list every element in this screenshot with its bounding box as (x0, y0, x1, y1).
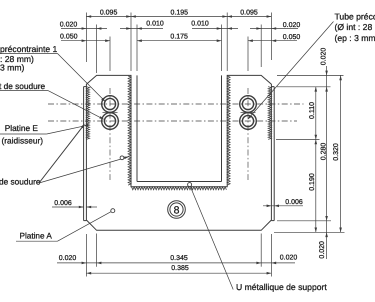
extension line lining inner right (top) (221, 25, 223, 72)
svg-text:Tube précontrainte 2: Tube précontrainte 2 (335, 12, 375, 22)
leader U metallique with node dot (190, 187, 233, 290)
svg-text:0.050: 0.050 (283, 34, 301, 41)
leader de soudure to inner wall weld (39, 157, 128, 183)
Platine E left (raidisseur) (83, 87, 85, 221)
svg-text:0.010: 0.010 (191, 21, 209, 28)
svg-text:précontrainte 1: précontrainte 1 (0, 44, 58, 54)
svg-text:8: 8 (174, 204, 180, 216)
centerline tube row 1 (horizontal) (48, 103, 304, 105)
svg-text:0.020: 0.020 (280, 255, 298, 262)
dimension 0.006 right plate (263, 205, 303, 207)
dimension 0.020 bottom-left (57, 262, 97, 264)
dimension 0.020 left (row2) (61, 28, 107, 30)
svg-text:0.345: 0.345 (170, 255, 188, 262)
dimension 0.195 (row1) (131, 16, 227, 18)
tube precontrainte 1 left (top) (102, 96, 119, 113)
extension line bottom chamfer right (260, 234, 262, 267)
weld serration right plate (268, 87, 271, 140)
dimension 0.095 left (row1) (86, 16, 131, 18)
inner lining plate bottom (Platine A) (137, 181, 222, 183)
dimension 0.020 bottom-right (261, 262, 295, 264)
svg-text:0.095: 0.095 (100, 10, 118, 17)
centerline left tubes (vertical) (109, 88, 111, 180)
svg-text:0.095: 0.095 (240, 10, 258, 17)
dimension 0.190 (right col1) (315, 140, 317, 233)
svg-text:0.195: 0.195 (171, 10, 189, 17)
tick at right tube tangency (241, 112, 256, 114)
svg-text:0.110: 0.110 (309, 102, 316, 119)
svg-text:U métallique de support: U métallique de support (236, 282, 327, 292)
extension line plate bottom (right) (277, 220, 331, 222)
tube precontrainte 2 left (bottom) (102, 113, 119, 130)
weld serration right opening wall (227, 76, 230, 185)
extension line arms top (right) (277, 74, 344, 76)
svg-text:0.050: 0.050 (60, 34, 78, 41)
svg-text:0.020: 0.020 (321, 48, 328, 66)
extension line body left edge (bottom) (85, 234, 87, 277)
svg-text:(Ø int : 28 mm): (Ø int : 28 mm) (335, 22, 375, 32)
extension line body right edge (top) (270, 13, 272, 61)
dimension 0.010 right (row2) (192, 28, 238, 30)
item balloon 8 (168, 201, 186, 219)
leader Platine E (0, 133, 47, 135)
extension line right tube axis (top) (247, 37, 249, 72)
svg-text:3 mm): 3 mm) (0, 63, 24, 73)
svg-text:0.320: 0.320 (333, 143, 340, 161)
svg-text:0.006: 0.006 (54, 200, 72, 207)
svg-text:0.006: 0.006 (285, 199, 303, 206)
dimension 0.175 (row3) (137, 40, 222, 42)
dimension 0.050 left (row3) (61, 40, 110, 42)
dimension 0.020 top (right col2) (326, 66, 328, 87)
extension line opening left wall (top) (130, 13, 132, 72)
svg-text:0.280: 0.280 (321, 143, 328, 161)
inner lining plate right (vertical) (221, 75, 223, 181)
extension line plate top (right) (277, 86, 331, 88)
leader t de soudure (0, 90, 48, 92)
svg-text:(ep : 3 mm): (ep : 3 mm) (335, 33, 375, 43)
dimension 0.010 left (row2) (120, 28, 163, 30)
dimension 0.280 (right col2) (326, 87, 328, 221)
centerline tube row 2 (horizontal) (48, 120, 297, 122)
leader Platine A with node dot (16, 240, 58, 242)
extension line body right edge (bottom) (270, 234, 272, 277)
dimension 0.006 left plate (52, 206, 84, 208)
svg-text:0.020: 0.020 (60, 21, 78, 28)
dimension 0.320 (right col3) (340, 75, 342, 232)
dimension 0.110 (right col1) (315, 87, 317, 140)
tube precontrainte 1 right (top) (240, 96, 257, 113)
tick at left tube tangency (103, 112, 118, 114)
svg-text:0.010: 0.010 (146, 21, 164, 28)
svg-text:0.175: 0.175 (170, 34, 188, 41)
extension line lining inner left (top) (136, 25, 138, 72)
tube precontrainte 2 right (bottom) (240, 113, 257, 130)
extension line top chamfer end right (260, 25, 262, 68)
svg-text:t de soudure: t de soudure (0, 81, 46, 91)
svg-text:Platine E: Platine E (5, 123, 39, 133)
extension line top chamfer end (96, 25, 98, 74)
extension line body bottom (right) (274, 231, 345, 233)
svg-text:0.020: 0.020 (319, 241, 326, 259)
weld serration left plate (86, 87, 89, 140)
U-shaped support body outline (86, 75, 271, 230)
svg-text:Platine A: Platine A (20, 231, 53, 240)
inner lining plate left (vertical) (136, 75, 138, 181)
dimension 0.385 (86, 272, 271, 274)
extension line left tube axis (top) (109, 37, 111, 72)
svg-text:(raidisseur): (raidisseur) (2, 136, 44, 146)
Platine E right (raidisseur) (273, 87, 275, 221)
dimension 0.095 right (row1) (227, 16, 271, 18)
extension line opening right wall (top) (226, 13, 228, 72)
dimension 0.345 (97, 262, 262, 264)
leader tube precontrainte 2 (248, 22, 334, 120)
leader de soudure to plate weld (39, 125, 84, 184)
dimension 0.050 right (row3) (248, 40, 297, 42)
svg-text:0.020: 0.020 (59, 255, 77, 262)
extension line body left edge (top) (85, 13, 87, 63)
svg-text:0.190: 0.190 (309, 173, 316, 191)
leader tube precontrainte 1 (0, 53, 58, 55)
dimension 0.020 right (row2) (250, 28, 298, 30)
extension line weld bottom (right) (276, 139, 320, 141)
centerline right tubes (vertical) (247, 88, 249, 180)
weld serration opening bottom (132, 187, 227, 190)
dimension 0.020 bottom (right col2) (326, 221, 328, 259)
svg-text:0.385: 0.385 (171, 265, 189, 272)
weld serration left opening wall (128, 76, 131, 185)
svg-text:0.020: 0.020 (283, 22, 301, 29)
extension line bottom chamfer left (96, 234, 98, 267)
svg-text:de soudure: de soudure (0, 177, 41, 187)
